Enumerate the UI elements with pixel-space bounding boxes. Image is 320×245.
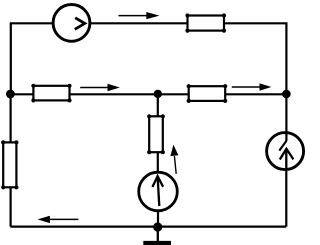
wire: R4 to current source CS1 [157, 152, 159, 173]
ground [143, 227, 171, 243]
current source U1 (top left circle) [53, 5, 90, 42]
resistor R3 (middle right horizontal) [187, 84, 228, 103]
wire: left rail top segment (corner to source) [11, 23, 54, 94]
wire: top rail between source and resistor R1 [90, 22, 188, 24]
diagonal lead inside CS2 [279, 141, 286, 151]
current source CS2 (right circle) [267, 133, 304, 170]
wire: middle rail left stub (node to resistor R2) [10, 93, 33, 95]
current arrow I1 (top, pointing right) [119, 12, 160, 19]
arrow glyph inside U1 (right-pointing chevron) [75, 18, 85, 30]
node A (left middle junction) [6, 90, 15, 99]
current arrow I5 (bottom left, pointing left) [38, 216, 79, 223]
current arrow I4 (beside R4, pointing up) [170, 145, 178, 174]
current arrow I2 (middle left, pointing right) [80, 84, 120, 91]
current arrow I3 (middle right, pointing right) [232, 83, 272, 90]
wire: middle rail between R2 and R3 [70, 93, 189, 95]
resistor R2 (middle left horizontal) [31, 84, 71, 103]
wire: top rail right segment and right rail down to middle node [224, 23, 286, 94]
wire: left rail (node A down to resistor R5) [10, 94, 12, 142]
current source CS1 (center circle) [139, 172, 178, 211]
wire: middle rail right segment (R3 to right node) [225, 93, 286, 95]
arrow inside CS2 (pointing up) [280, 149, 294, 169]
wire: R5 to bottom left corner [10, 187, 12, 226]
resistor R5 (left vertical) [1, 140, 18, 189]
wire: CS1 to bottom rail [157, 211, 159, 227]
node D (bottom junction with ground) [153, 222, 162, 231]
wire: CS2 to bottom right corner [285, 169, 287, 226]
resistor R1 (top horizontal) [185, 13, 226, 32]
node B (center middle junction) [154, 90, 162, 98]
resistor R4 (center vertical) [147, 114, 165, 154]
wire: bottom rail [10, 226, 286, 228]
wire: right rail (node C into current source CS2) [285, 94, 287, 141]
node C (right middle junction) [282, 90, 291, 99]
wire: center branch (node B down to resistor R4) [157, 94, 159, 116]
arrow inside CS1 (pointing up) [152, 176, 163, 206]
